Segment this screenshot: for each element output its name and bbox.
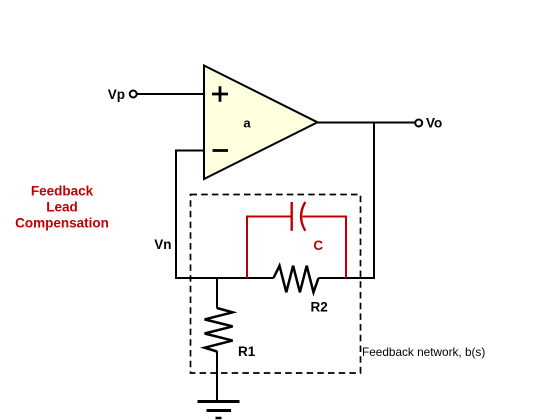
ground	[198, 402, 240, 419]
capacitor C left plate	[291, 202, 293, 231]
svg-text:Vo: Vo	[426, 116, 442, 131]
wire feedback left vertical (Vn)	[175, 150, 177, 280]
op-amp + input marker	[212, 86, 228, 101]
svg-text:Vp: Vp	[108, 87, 125, 102]
wire Vn horizontal left segment	[175, 277, 274, 279]
wire op-amp output	[317, 122, 416, 124]
wire Vp to op-amp + input	[138, 93, 206, 95]
wire - input stub	[175, 150, 204, 152]
wire R1 top stub	[216, 277, 218, 309]
capacitor C right plate (curved)	[301, 202, 305, 231]
op-amp - input marker	[213, 149, 229, 152]
svg-text:Lead: Lead	[46, 200, 78, 215]
title text "Feedback Lead Compensation"	[15, 184, 109, 231]
wire R1 to ground	[216, 351, 218, 402]
svg-text:R2: R2	[311, 300, 328, 315]
wire Vn horizontal right segment	[319, 277, 376, 279]
svg-text:Feedback: Feedback	[31, 184, 94, 199]
svg-text:Vn: Vn	[154, 237, 171, 252]
svg-text:Feedback network, b(s): Feedback network, b(s)	[362, 345, 485, 359]
svg-text:C: C	[313, 238, 323, 253]
wire output feedback vertical	[373, 122, 375, 280]
op-amp U1 (gain a)	[204, 66, 318, 180]
terminal Vp	[130, 91, 137, 98]
resistor R2	[274, 266, 319, 293]
terminal Vo	[415, 120, 422, 127]
svg-text:R1: R1	[238, 344, 256, 359]
svg-text:Compensation: Compensation	[15, 216, 109, 231]
capacitor C branch: right red wire	[303, 217, 347, 279]
dashed feedback network box	[191, 195, 361, 374]
resistor R1	[205, 308, 233, 352]
svg-text:a: a	[243, 116, 251, 131]
capacitor C branch: left red wire	[247, 217, 291, 279]
